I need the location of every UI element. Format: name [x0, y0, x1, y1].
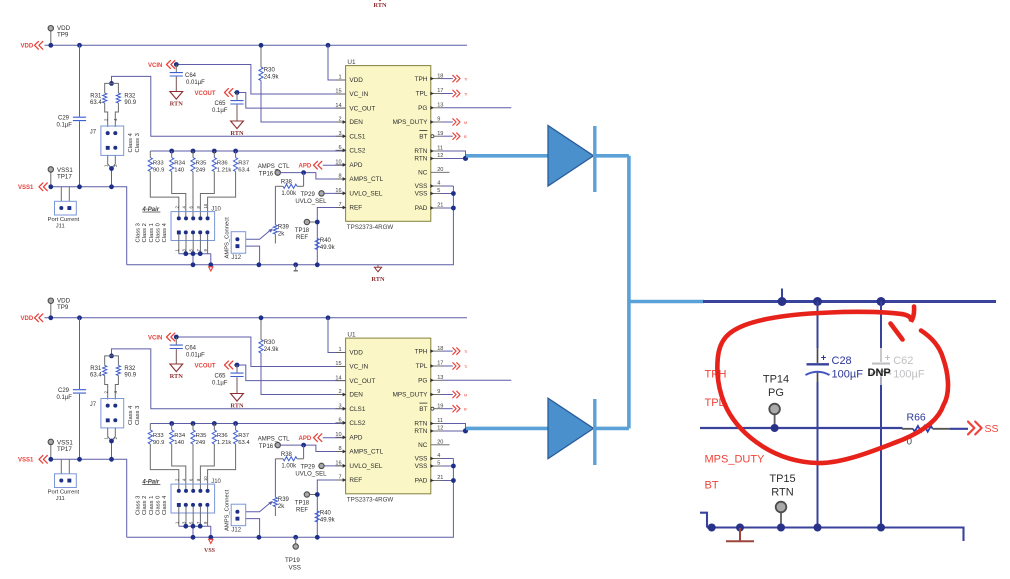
wire TPH flag — [442, 75, 468, 82]
svg-text:C64: C64 — [185, 73, 197, 79]
wire TPL flag — [442, 363, 468, 370]
svg-text:R40: R40 — [320, 511, 332, 517]
svg-text:RTN: RTN — [170, 373, 184, 380]
svg-text:J7: J7 — [90, 402, 97, 408]
svg-text:1.21k: 1.21k — [217, 167, 231, 173]
junction dots bottom rail — [191, 535, 320, 540]
potentiometer R39 2k — [273, 225, 289, 244]
svg-text:UVLO_SEL: UVLO_SEL — [295, 472, 327, 478]
net flag VDD — [21, 41, 43, 49]
svg-text:5: 5 — [437, 188, 440, 194]
svg-text:VSS1: VSS1 — [18, 185, 34, 191]
svg-text:TPL: TPL — [416, 363, 428, 370]
svg-text:C29: C29 — [58, 116, 70, 122]
wire MPS_DUTY flag — [442, 119, 468, 126]
wire J7 to VSS1 — [104, 155, 119, 186]
junction dots VSS PAD — [451, 191, 456, 210]
resistor R35 249 — [191, 151, 207, 218]
ground symbol fragment — [726, 528, 754, 541]
pin 2 DEN — [336, 389, 364, 399]
connector J10 — [171, 206, 222, 240]
svg-text:J11: J11 — [56, 496, 65, 502]
svg-text:R33: R33 — [153, 433, 165, 439]
svg-text:140: 140 — [174, 440, 185, 446]
svg-text:Class 4: Class 4 — [128, 132, 134, 152]
svg-text:U1: U1 — [347, 59, 356, 66]
svg-text:BT: BT — [705, 479, 719, 491]
resistor R34 140 — [170, 424, 186, 491]
svg-text:B': B' — [464, 135, 468, 139]
wire TP29 to pin16 — [324, 465, 345, 467]
svg-text:RTN: RTN — [414, 421, 427, 428]
svg-text:10: 10 — [203, 476, 208, 481]
svg-text:VCIN: VCIN — [148, 336, 162, 342]
svg-text:10: 10 — [335, 160, 341, 166]
svg-text:TP18: TP18 — [295, 500, 310, 506]
svg-text:Class 3: Class 3 — [135, 496, 141, 515]
wire R38 to R39 — [274, 459, 276, 498]
svg-text:VSS1: VSS1 — [18, 458, 34, 464]
wire VCIN to VC_IN pin15 — [176, 337, 346, 367]
junction dot TP16 node — [301, 443, 306, 448]
svg-text:R38: R38 — [281, 179, 293, 185]
pin 17 TPL — [416, 88, 444, 98]
wire RTN pins to bus — [442, 151, 466, 159]
svg-text:M: M — [464, 393, 467, 397]
wire R30 to DEN pin2 — [261, 353, 346, 395]
svg-text:BT: BT — [419, 406, 427, 413]
IC U1 TPS2373-4RGW — [346, 331, 431, 503]
svg-text:Class 3: Class 3 — [135, 223, 141, 242]
svg-text:15: 15 — [335, 89, 341, 95]
pin 11 RTN — [414, 146, 443, 156]
svg-text:C62: C62 — [893, 355, 913, 367]
wire APD to pin10 — [323, 164, 346, 166]
pin numbers J10 top — [174, 476, 208, 481]
net flag VCIN — [148, 333, 175, 342]
svg-text:0.1µF: 0.1µF — [57, 395, 73, 401]
junction dot TP16 node — [301, 170, 306, 175]
svg-text:U1: U1 — [347, 331, 356, 338]
wire R38 to R39 — [274, 186, 276, 225]
ground RTN under C64 — [170, 364, 183, 372]
junction dots J10 bus — [183, 251, 202, 256]
svg-text:MPS_DUTY: MPS_DUTY — [393, 119, 429, 126]
svg-text:UVLO_SEL: UVLO_SEL — [349, 191, 382, 198]
wire TPL flag — [442, 90, 468, 97]
wire J10 bottom bus — [174, 507, 211, 537]
wire C29 to VSS1 — [79, 121, 81, 187]
svg-text:VCOUT: VCOUT — [195, 91, 216, 97]
svg-text:90.9: 90.9 — [124, 373, 136, 379]
pin 17 TPL — [416, 361, 444, 371]
svg-text:TI: TI — [464, 77, 467, 81]
svg-text:63.4: 63.4 — [238, 167, 250, 173]
wire VDD to pin1 — [328, 45, 346, 80]
wire TP16 to AMPS_CTL pin8 — [280, 173, 345, 179]
svg-text:VDD: VDD — [349, 350, 363, 357]
pin 8 AMPS_CTL — [336, 174, 384, 184]
wire stub up — [781, 289, 783, 302]
PD controller block 1 (top) — [18, 25, 511, 283]
svg-text:BT: BT — [419, 133, 427, 140]
resistor R38 1.00k — [275, 173, 303, 198]
junction dot TP18 node — [315, 220, 320, 225]
ground RTN below rail — [371, 265, 385, 283]
svg-text:RTN: RTN — [414, 148, 427, 155]
connector J12 AMPS_Connect — [231, 504, 246, 533]
net flag VCIN — [148, 61, 175, 70]
wire VSS1 to J11 — [61, 459, 69, 474]
wire BT flag — [442, 405, 468, 412]
wire J7 to VSS1 — [104, 428, 119, 459]
junction dot J7 bottom — [109, 166, 114, 171]
svg-text:RTN: RTN — [414, 428, 427, 435]
PD controller block 2 (bottom) — [18, 297, 511, 571]
labels Class4 Class3 at J7 — [128, 132, 141, 152]
svg-text:TI: TI — [464, 365, 467, 369]
svg-text:TP17: TP17 — [57, 173, 72, 180]
resistor R31 63.4 — [90, 356, 112, 400]
resistor R30 24.9k — [259, 45, 280, 80]
wire J12 to rail — [246, 246, 260, 265]
svg-text:DEN: DEN — [349, 392, 363, 399]
wire CLS2 rail — [150, 150, 345, 152]
svg-text:TPS2373-4RGW: TPS2373-4RGW — [347, 224, 394, 231]
svg-text:C64: C64 — [185, 346, 197, 352]
lead C62 (grey) — [880, 348, 882, 385]
test point TP16 — [258, 164, 290, 178]
svg-text:Class 1: Class 1 — [149, 223, 155, 242]
svg-text:63.4: 63.4 — [90, 100, 102, 106]
svg-text:APD: APD — [349, 162, 363, 169]
svg-text:R30: R30 — [264, 68, 276, 74]
svg-text:1: 1 — [338, 75, 341, 81]
pin 14 VC_OUT — [335, 103, 375, 113]
svg-text:TP19: TP19 — [285, 557, 300, 564]
wire VDD rail — [45, 44, 468, 46]
junction dots VDD net — [48, 43, 330, 48]
pin 3 CLS1 — [336, 131, 366, 141]
wire C62 branch — [880, 302, 882, 528]
power arrow VSS — [209, 539, 213, 543]
wire VCOUT to VC_OUT pin14 — [234, 365, 346, 381]
resistor R35 249 — [191, 424, 207, 491]
svg-text:VSS: VSS — [415, 463, 428, 470]
net flag SS (red) — [968, 422, 999, 435]
svg-text:R39: R39 — [278, 225, 290, 231]
test point TP17 — [48, 439, 73, 459]
wire fragment bottom rail — [700, 513, 964, 541]
svg-text:TP9: TP9 — [57, 304, 69, 311]
pin 7 REF — [336, 475, 363, 485]
junction dot R30 top — [259, 43, 264, 48]
svg-text:TP18: TP18 — [295, 228, 310, 234]
pin 19 BT — [419, 131, 443, 141]
wire VSS1 rail — [49, 187, 127, 265]
svg-text:R30: R30 — [264, 340, 276, 346]
capacitor C65 0.1uF — [212, 365, 244, 394]
svg-text:2: 2 — [338, 389, 341, 395]
svg-text:63.4: 63.4 — [238, 440, 250, 446]
wire diode bus (light blue) — [466, 156, 704, 429]
svg-text:PAD: PAD — [415, 205, 428, 212]
svg-text:49.9k: 49.9k — [320, 245, 336, 251]
svg-text:90.9: 90.9 — [153, 167, 164, 173]
pin 21 PAD — [415, 475, 444, 485]
pin 5 VSS — [415, 188, 442, 198]
ground RTN under C65 — [231, 394, 244, 402]
annotation red ellipse — [717, 307, 948, 464]
svg-text:AMPS_CTL: AMPS_CTL — [258, 436, 290, 442]
svg-text:VCOUT: VCOUT — [195, 363, 216, 369]
svg-text:6: 6 — [338, 145, 341, 151]
svg-text:4: 4 — [437, 181, 440, 187]
wire R39 wiper arrow — [246, 501, 273, 512]
svg-text:Class 4: Class 4 — [162, 495, 168, 515]
svg-text:TP17: TP17 — [57, 446, 72, 453]
test point TP19 — [285, 537, 301, 571]
svg-text:PAD: PAD — [415, 478, 428, 485]
svg-text:1.00k: 1.00k — [281, 464, 297, 470]
svg-text:UVLO_SEL: UVLO_SEL — [295, 199, 327, 205]
capacitor C29 0.1uF — [57, 388, 87, 401]
svg-text:7: 7 — [338, 475, 341, 481]
labels Class at J10 — [135, 495, 168, 515]
resistor R38 1.00k — [275, 445, 303, 470]
pin 16 UVLO_SEL — [335, 461, 383, 471]
svg-text:Class 2: Class 2 — [142, 223, 148, 242]
wire VDD to C29 — [79, 45, 81, 116]
connector J7 — [90, 399, 124, 428]
pin 9 MPS_DUTY — [393, 117, 442, 127]
svg-text:Class 1: Class 1 — [149, 496, 155, 515]
svg-text:VDD: VDD — [21, 316, 34, 322]
resistor R36 1.21k — [200, 151, 231, 218]
label 4-Pair — [141, 479, 160, 485]
test point TP16 — [258, 436, 290, 450]
labels Class at J10 — [135, 222, 168, 242]
svg-text:90.9: 90.9 — [153, 440, 164, 446]
junction dot J7 bottom — [109, 439, 114, 444]
wire PG net — [442, 379, 512, 381]
ground RTN fragment at top edge — [373, 0, 387, 9]
svg-text:R32: R32 — [124, 366, 136, 372]
svg-text:Class 3: Class 3 — [135, 133, 141, 152]
svg-text:+: + — [885, 353, 891, 364]
svg-text:7: 7 — [338, 202, 341, 208]
wire PG net — [442, 107, 512, 109]
capacitor C64 0.01uF — [170, 337, 205, 364]
connector J11 Port Current — [48, 474, 80, 502]
lead C28 (grey) — [817, 348, 819, 382]
net flag APD — [299, 434, 322, 442]
svg-text:VSS: VSS — [415, 456, 428, 463]
pin 13 PG — [418, 103, 443, 113]
junction dot R31R32 top — [109, 81, 114, 86]
svg-text:249: 249 — [196, 440, 206, 446]
svg-text:VDD: VDD — [21, 44, 34, 50]
svg-text:TPL: TPL — [416, 91, 428, 98]
svg-text:16: 16 — [335, 188, 341, 194]
pin 6 CLS2 — [336, 418, 366, 428]
svg-text:C29: C29 — [58, 388, 70, 394]
svg-text:0.01µF: 0.01µF — [186, 353, 205, 359]
svg-text:R38: R38 — [281, 452, 293, 458]
junction dots bottom rail — [708, 524, 885, 532]
svg-text:R33: R33 — [153, 161, 165, 167]
svg-text:249: 249 — [196, 167, 206, 173]
svg-text:NC: NC — [418, 170, 428, 177]
pin 4 VSS — [415, 453, 442, 463]
pin 18 TPH — [415, 73, 444, 83]
pin 11 RTN — [414, 418, 443, 428]
resistor R32 90.9 — [112, 356, 137, 400]
svg-text:9: 9 — [437, 389, 440, 395]
svg-text:1.00k: 1.00k — [281, 191, 297, 197]
svg-text:PG: PG — [418, 105, 427, 112]
wire REF net — [317, 480, 345, 537]
connector J10 — [171, 479, 222, 513]
labels Class4 Class3 at J7 — [128, 405, 141, 425]
resistor R40 49.9k — [315, 511, 335, 524]
junction dot VCIN — [174, 62, 179, 67]
svg-text:AMPS_CTL: AMPS_CTL — [258, 164, 290, 170]
test point TP29 — [295, 463, 327, 478]
junction dots VSS PAD — [451, 464, 456, 483]
zoomed schematic fragment (right) — [700, 289, 999, 542]
net flag VSS1 — [18, 183, 47, 191]
svg-text:DEN: DEN — [349, 119, 363, 126]
wire bottom rail VSS — [127, 186, 454, 265]
svg-text:TP9: TP9 — [57, 31, 69, 38]
capacitor C65 0.1uF — [212, 93, 244, 122]
svg-text:CLS2: CLS2 — [349, 148, 365, 155]
svg-text:R37: R37 — [238, 433, 249, 439]
wire R39 wiper arrow — [246, 228, 273, 239]
svg-text:TP29: TP29 — [301, 192, 316, 198]
pin 14 VC_OUT — [335, 375, 375, 385]
wire BT flag — [442, 133, 468, 140]
power arrow VSS — [209, 267, 213, 271]
svg-text:REF: REF — [349, 477, 362, 484]
svg-text:C28: C28 — [832, 355, 852, 367]
svg-text:MPS_DUTY: MPS_DUTY — [705, 453, 766, 465]
pin 10 APD — [335, 160, 363, 170]
svg-text:Class 2: Class 2 — [142, 496, 148, 515]
junction dot VCOUT — [235, 363, 240, 368]
net flag VSS1 — [18, 455, 47, 463]
wire APD to pin10 — [323, 436, 346, 438]
test point TP9 — [48, 297, 70, 318]
wire R30 to DEN pin2 — [261, 81, 346, 123]
svg-text:TP15: TP15 — [769, 473, 795, 485]
svg-text:C65: C65 — [215, 373, 227, 379]
svg-text:TI: TI — [464, 92, 467, 96]
resistor R33 90.9 — [148, 151, 179, 218]
junction dots VDD net — [48, 315, 330, 320]
svg-text:AMPS_Connect: AMPS_Connect — [224, 489, 230, 531]
svg-text:R36: R36 — [217, 161, 229, 167]
resistor R40 49.9k — [315, 238, 335, 251]
junction dots CLS2 rail — [169, 149, 238, 154]
svg-text:R32: R32 — [124, 93, 136, 99]
connector J12 AMPS_Connect — [231, 232, 246, 261]
svg-text:9: 9 — [437, 117, 440, 123]
junction dot RTN bus — [463, 428, 468, 433]
IC U1 TPS2373-4RGW — [346, 59, 431, 231]
wire J10 bottom bus — [174, 234, 211, 264]
pin 20 NC — [418, 440, 449, 450]
pin numbers J7 top — [104, 118, 119, 121]
svg-text:R35: R35 — [196, 161, 208, 167]
pin 9 MPS_DUTY — [393, 389, 442, 399]
pin 1 VDD — [336, 347, 364, 357]
svg-text:VC_OUT: VC_OUT — [349, 378, 375, 385]
wire REF net — [317, 208, 345, 265]
stub cut TP19 — [294, 265, 298, 271]
resistor R37 63.4 — [208, 424, 251, 491]
wire J12 to rail — [246, 519, 260, 538]
wire TPH flag — [442, 348, 468, 355]
junction dots fragment top — [778, 297, 886, 306]
svg-text:SS: SS — [985, 423, 999, 435]
diode D2 (bottom) — [548, 398, 595, 465]
pin 2 DEN — [336, 117, 364, 127]
svg-text:90.9: 90.9 — [124, 100, 136, 106]
svg-text:49.9k: 49.9k — [320, 517, 336, 523]
svg-text:R40: R40 — [320, 238, 332, 244]
svg-text:R34: R34 — [174, 161, 186, 167]
pin 19 BT — [419, 403, 443, 413]
junction dots CLS2 rail — [169, 421, 238, 426]
svg-text:1: 1 — [338, 347, 341, 353]
svg-text:J12: J12 — [231, 528, 241, 534]
label 4-Pair — [141, 207, 160, 213]
svg-text:VCIN: VCIN — [148, 63, 162, 69]
net flag APD — [299, 161, 322, 169]
svg-text:R34: R34 — [174, 433, 186, 439]
svg-text:REF: REF — [349, 205, 362, 212]
svg-text:14: 14 — [335, 375, 341, 381]
svg-text:RTN: RTN — [170, 101, 184, 108]
wire VCIN to VC_IN pin15 — [176, 65, 346, 95]
resistor R34 140 — [170, 151, 186, 218]
capacitor C28 100uF — [806, 353, 864, 381]
svg-text:0.1µF: 0.1µF — [212, 380, 228, 386]
wire RTN pins to bus — [442, 424, 466, 432]
pin 8 AMPS_CTL — [336, 446, 384, 456]
svg-text:NC: NC — [418, 442, 428, 449]
svg-text:DNP: DNP — [868, 367, 891, 379]
svg-text:2k: 2k — [278, 504, 285, 510]
svg-text:Port Current: Port Current — [48, 489, 80, 495]
svg-text:VSS: VSS — [204, 548, 216, 554]
svg-text:VC_IN: VC_IN — [349, 364, 368, 371]
wire VSS PAD net — [442, 186, 454, 208]
svg-text:PG: PG — [418, 378, 427, 385]
junction dot TP18 node — [315, 492, 320, 497]
wire VDD to C29 — [79, 318, 81, 389]
svg-text:R36: R36 — [217, 433, 229, 439]
svg-text:TPS2373-4RGW: TPS2373-4RGW — [347, 496, 394, 503]
svg-text:100µF: 100µF — [893, 369, 925, 381]
svg-text:AMPS_CTL: AMPS_CTL — [349, 449, 383, 456]
wire bottom rail VSS — [127, 459, 454, 538]
svg-text:VSS: VSS — [289, 564, 301, 571]
connector J7 — [90, 126, 124, 155]
svg-text:TPH: TPH — [415, 76, 428, 83]
